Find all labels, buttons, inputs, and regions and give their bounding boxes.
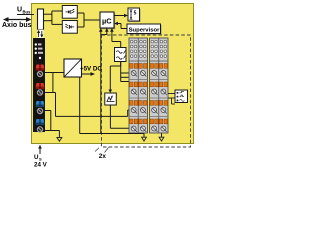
wire µC to output filter — [110, 28, 121, 49]
terminal screw 24V a — [37, 71, 42, 76]
ground drop group 1 — [142, 134, 147, 142]
wire filter to surge protector — [109, 61, 121, 93]
optocoupler U2 (lower isolator) — [62, 21, 77, 34]
connector hole field group 2 — [151, 40, 167, 57]
svg-text:U: U — [17, 7, 22, 14]
wire GND terminal stub — [45, 111, 51, 131]
voltage monitor block — [128, 8, 141, 22]
svg-text:5: 5 — [134, 11, 137, 17]
module body (yellow block) — [32, 4, 194, 144]
LED D indicator — [35, 43, 42, 45]
bus interface block — [38, 9, 44, 30]
Axio bus arrow — [3, 17, 32, 22]
terminal screw GND a — [37, 108, 42, 113]
wire feedback riser into µC — [99, 28, 103, 134]
svg-text:Supervisor: Supervisor — [129, 28, 160, 34]
terminal clamp 24V a (red) — [36, 65, 45, 71]
wire 24V output rail — [56, 110, 132, 116]
svg-text:+5V DC: +5V DC — [80, 65, 102, 72]
wire filter to output row1 — [121, 61, 132, 82]
terminal clamp GND b (blue) — [36, 119, 45, 125]
wire bottom feedback rail — [80, 133, 144, 135]
terminal clamp GND a (blue) — [36, 101, 45, 107]
2x label with leader — [95, 148, 109, 161]
wire optocouplers to microcontroller — [77, 13, 100, 27]
wire bus interface to optocouplers — [44, 11, 63, 24]
LED indicator 4 — [39, 57, 41, 59]
wire U_Bus feed — [17, 14, 34, 16]
svg-text:µC: µC — [102, 16, 112, 25]
wire diagnostics into µC — [101, 28, 109, 35]
terminal clamp 24V b (red) — [36, 83, 45, 89]
connector hole field group 1 — [130, 40, 146, 57]
ground drop group 2 — [159, 133, 164, 141]
terminal screw GND b — [37, 127, 42, 132]
svg-text:24 V: 24 V — [34, 162, 48, 169]
output stage block (waveforms) — [175, 90, 188, 103]
svg-text:2x: 2x — [99, 153, 107, 160]
ground symbol FE — [57, 137, 62, 141]
supply arrow US — [38, 145, 42, 154]
connector group 2 body — [150, 38, 169, 133]
output clock filter block — [115, 48, 127, 62]
DC/DC converter +5V — [64, 59, 82, 77]
repeated-section dashed frame (2x) — [102, 35, 191, 147]
wire surge protector to lower rail — [110, 105, 134, 128]
LED UL indicator — [35, 48, 43, 50]
connector group 1 body — [129, 38, 148, 133]
wire FE hook to ground — [45, 131, 59, 138]
svg-text:Axio bus: Axio bus — [2, 22, 32, 29]
svg-text:Bus: Bus — [23, 9, 32, 14]
bus continuation symbol — [38, 30, 44, 39]
wire 24V to DC/DC converter — [45, 72, 64, 74]
terminal screw 24V b — [37, 90, 42, 95]
supervisor block — [127, 24, 162, 35]
wires group 2 to output stage — [168, 94, 175, 105]
LED E indicator — [35, 52, 43, 54]
wire DC/DC secondary return — [79, 77, 81, 134]
wire 24V branch to output rail — [45, 73, 56, 117]
wire +5V DC output arrow — [82, 72, 96, 76]
surge protection block — [105, 93, 117, 105]
power terminal strip — [33, 38, 45, 132]
wire µC to voltage monitor — [114, 14, 128, 17]
microcontroller U3 — [100, 12, 115, 29]
node U_Bus label — [17, 7, 31, 15]
optocoupler U1 (upper isolator) — [62, 6, 77, 19]
push-in clamp cells (orange) — [129, 64, 167, 133]
wire supervisor to µC — [114, 22, 127, 29]
US label — [34, 154, 42, 162]
